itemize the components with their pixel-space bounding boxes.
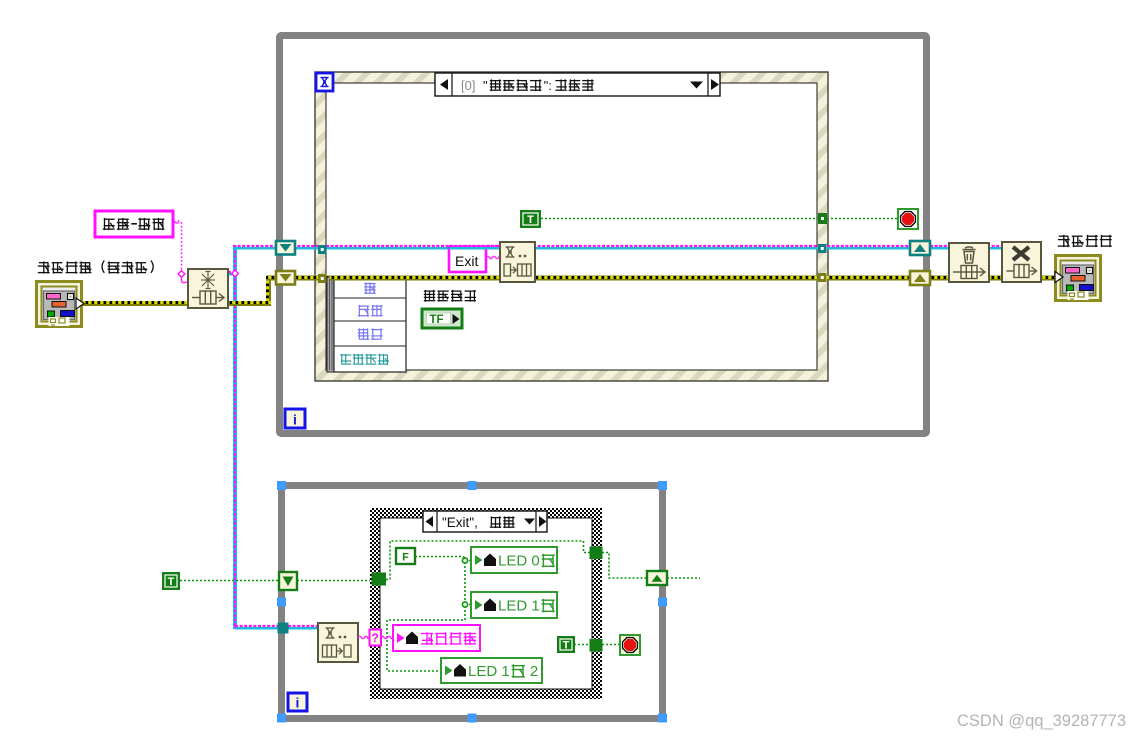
- enqueue glyph: element into queue: [504, 264, 531, 276]
- wire: queue inside event structure right: [533, 247, 818, 250]
- control: error in cluster icon: [35, 280, 83, 328]
- wire: queue over Exit label: [449, 247, 502, 250]
- wire: queue to right shift register: [827, 247, 910, 250]
- while loop 1 (producer) border: [280, 36, 927, 434]
- label: producer-consumer (生产-消费): [95, 211, 173, 237]
- wire: error to release queue node: [929, 276, 951, 281]
- indicator: error out cluster icon: [1054, 254, 1102, 302]
- label: stop button: [424, 290, 435, 302]
- wire: true constant to event tunnel: [541, 218, 818, 220]
- wire: branch to LED 0: [465, 560, 471, 562]
- event data node: source row: [364, 282, 375, 294]
- wire: case selector to command display: [381, 636, 393, 638]
- wire: error from error-in to obtain queue: [81, 301, 190, 306]
- release queue glyph: trash can: [963, 247, 976, 263]
- svg-text:i: i: [293, 412, 297, 428]
- terminal: stop button (TF): [422, 309, 462, 328]
- node: release queue: [949, 243, 989, 282]
- wire: consumer loop boolean output stub: [667, 577, 700, 579]
- wire: queue name squiggle from label: [172, 221, 179, 223]
- wire: error to event structure: [294, 276, 319, 281]
- wire: F constant out: [415, 557, 465, 559]
- node: close/flush queue: [1002, 242, 1041, 282]
- tunnel: stop boolean out of case (right bottom, filled): [590, 639, 603, 652]
- event data node: [327, 277, 334, 372]
- event data node: time row: [358, 328, 369, 340]
- wire: queue name into obtain queue: [182, 277, 190, 283]
- event structure selector label: [435, 73, 720, 96]
- svg-text:T: T: [527, 214, 534, 226]
- tunnel: stop boolean out of event: [818, 213, 827, 224]
- svg-text:LED 0: LED 0: [498, 552, 540, 569]
- wire: branch to LED 1: [465, 604, 471, 606]
- event data node: ctlref row: [340, 354, 351, 364]
- string constant: Exit: [449, 248, 486, 272]
- svg-text:F: F: [402, 552, 409, 564]
- release queue glyph: queue: [953, 266, 985, 279]
- junction: LED 1 branch: [462, 602, 467, 607]
- wire: error into left shift register: [266, 276, 278, 281]
- terminal: producer loop condition (stop sign): [898, 209, 918, 229]
- svg-text:T: T: [168, 576, 175, 588]
- shift register left (queue): [276, 241, 295, 255]
- node: obtain queue: [188, 269, 228, 308]
- constant: TRUE (consumer loop input): [162, 572, 180, 590]
- wire: boolean branch trunk to LED 1灯 2: [387, 558, 465, 671]
- wire: queue out of obtain queue: [228, 273, 233, 276]
- tunnel: error out of event (right): [818, 273, 827, 282]
- wire: error from obtain queue: [226, 301, 271, 306]
- svg-text:[0]: [0]: [461, 78, 475, 93]
- obtain queue glyph: snowflake: [201, 272, 215, 289]
- node: enqueue element: [500, 242, 535, 282]
- wire: event tunnel to loop stop terminal: [827, 218, 898, 220]
- svg-text:Exit: Exit: [455, 253, 478, 269]
- svg-text:?: ?: [372, 631, 379, 645]
- case structure border (checkered): [370, 508, 602, 699]
- wire: error riser: [266, 278, 271, 301]
- shift register right (queue): [910, 241, 930, 255]
- tunnel: boolean out of consumer loop (right): [647, 571, 667, 585]
- iteration terminal i (producer loop): [285, 409, 305, 428]
- svg-text:":: ":: [544, 78, 552, 93]
- tunnel: error into event (left): [318, 274, 327, 283]
- event timeout terminal: [316, 73, 333, 91]
- wire: case out to consumer loop edge: [602, 553, 647, 579]
- wire: queue into consumer loop: [235, 627, 280, 630]
- close queue glyph: X: [1013, 247, 1029, 260]
- iteration terminal i (consumer loop): [288, 693, 307, 711]
- junction: queue refnum branch: [232, 270, 239, 277]
- constant: TRUE (producer stop): [520, 210, 541, 228]
- svg-text:2: 2: [530, 663, 538, 680]
- svg-text:LED 1: LED 1: [498, 597, 540, 614]
- tunnel: boolean into consumer loop: [279, 572, 297, 590]
- tunnel: boolean into case (left, filled): [372, 573, 387, 586]
- wire: queue refnum vertical trunk: [233, 246, 237, 629]
- svg-text:T: T: [563, 640, 570, 652]
- tunnel: boolean out of case (right top, filled): [590, 547, 603, 560]
- node: dequeue element: [318, 623, 358, 662]
- label: error out: [1058, 235, 1070, 247]
- wire: error across event structure: [326, 276, 818, 281]
- wire: queue to dequeue node: [288, 627, 320, 630]
- terminal: consumer loop condition (stop sign): [620, 635, 640, 655]
- wire: error to right shift register: [827, 276, 911, 281]
- case structure inner area: [380, 518, 592, 689]
- tunnel: queue into event (left): [318, 245, 327, 254]
- label: error in (no error): [38, 261, 50, 273]
- svg-text:"Exit",: "Exit",: [442, 515, 478, 530]
- wire: queue to producer loop: [233, 247, 318, 250]
- wire: queue name vertical: [181, 222, 183, 270]
- wire: case input rail to output tunnel: [386, 541, 590, 580]
- local variable: 命令显示: [393, 625, 480, 651]
- wire: queue to release queue node: [930, 247, 951, 250]
- wire: T to case tunnel: [574, 644, 590, 646]
- wire: TRUE constant to consumer loop tunnel: [180, 580, 279, 582]
- tunnel: queue into consumer loop (teal square): [278, 623, 289, 634]
- case selector terminal (?): [370, 630, 382, 646]
- event structure border (hatched): [315, 72, 828, 381]
- wire: error to error-out indicator: [1039, 276, 1057, 281]
- selection handles (consumer loop selected): [277, 481, 286, 490]
- shift register right (error): [910, 271, 930, 285]
- wire: tunnel to consumer stop terminal: [602, 644, 620, 646]
- junction: LED 0 branch: [462, 558, 467, 563]
- shift register left (error): [276, 271, 295, 285]
- svg-text:": ": [483, 78, 488, 93]
- case selector label: [423, 511, 547, 532]
- wire: dequeue string to case selector: [358, 636, 370, 638]
- wire: Exit string to enqueue: [486, 256, 500, 258]
- svg-text:i: i: [296, 695, 300, 711]
- wire: tunnel to case structure: [297, 580, 372, 582]
- error-in source arrow: [76, 298, 84, 309]
- dequeue glyph: queue to element: [323, 645, 352, 657]
- wire: error across event data node: [330, 276, 410, 281]
- wire: error between release and close nodes: [987, 276, 1004, 281]
- while loop 2 (consumer) border: [282, 486, 663, 719]
- local variable: LED 1灯: [471, 592, 557, 618]
- svg-text:CSDN @qq_39287773: CSDN @qq_39287773: [957, 712, 1126, 730]
- junction: name wire: [178, 271, 185, 278]
- constant: TRUE (consumer): [557, 636, 575, 653]
- obtain queue glyph: queue: [192, 291, 224, 304]
- wire: queue inside event structure left: [326, 247, 502, 250]
- close queue glyph: queue: [1007, 265, 1037, 278]
- constant: FALSE: [396, 548, 415, 564]
- tunnel: queue out of event (right): [818, 244, 827, 253]
- wire: queue between release and close nodes: [987, 247, 1004, 250]
- svg-text:LED 1: LED 1: [468, 663, 510, 680]
- local variable: LED 1灯 2: [441, 658, 542, 683]
- local variable: LED 0灯: [471, 547, 557, 573]
- event structure inner area: [326, 83, 817, 370]
- error-out sink arrow: [1055, 272, 1063, 283]
- svg-text:TF: TF: [430, 314, 444, 326]
- event data node: type row: [358, 305, 369, 317]
